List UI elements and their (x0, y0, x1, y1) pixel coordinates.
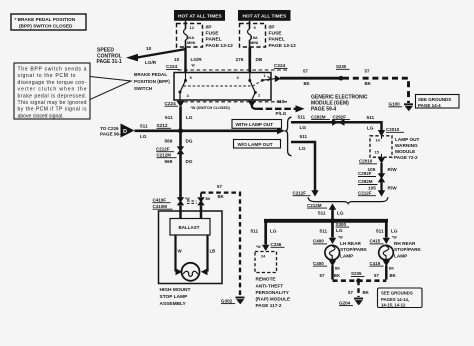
svg-text:S230: S230 (336, 64, 347, 69)
svg-text:C212M: C212M (307, 203, 322, 208)
svg-text:LG: LG (391, 228, 398, 233)
svg-text:LG: LG (300, 125, 307, 130)
switch blade left (pin 5 to pin 4) (179, 81, 190, 101)
svg-text:MODULE: MODULE (395, 149, 415, 154)
svg-text:C2010: C2010 (386, 127, 400, 132)
svg-text:PAGE 72-2: PAGE 72-2 (394, 155, 418, 160)
svg-text:BK: BK (390, 273, 397, 278)
hot at all times bar 2 (238, 10, 291, 21)
wire: 57 BK from RH lamp (374, 266, 397, 280)
svg-text:TO C226: TO C226 (100, 126, 119, 131)
connector C224 right arrow (274, 63, 288, 82)
ground G302 (221, 298, 245, 305)
wire LB from ballast to lamp (201, 235, 216, 275)
high mount stop lamp assembly box (159, 211, 223, 284)
svg-text:LG/R: LG/R (145, 60, 157, 65)
svg-text:ASSEMBLY: ASSEMBLY (160, 301, 187, 307)
svg-text:DG: DG (186, 159, 193, 164)
RH rear stop/park lamp (379, 241, 422, 260)
lamp out warning module label (394, 137, 420, 160)
pin 3 (237, 73, 252, 83)
connector C410F C410M (153, 197, 211, 209)
svg-text:W/O LAMP OUT: W/O LAMP OUT (238, 142, 273, 147)
wire: 57 BK dashed to ground G100 (343, 69, 409, 104)
see grounds box (bottom) (378, 288, 423, 308)
svg-text:POSITION (BPP): POSITION (BPP) (134, 79, 170, 84)
hot at all times bar 1 (174, 10, 225, 21)
svg-text:HOT AT ALL TIMES: HOT AT ALL TIMES (243, 14, 288, 20)
pin 5 (184, 73, 193, 83)
svg-text:57: 57 (365, 69, 370, 74)
wire: 569 DG down to C410 (165, 154, 193, 198)
connector C292M C292F (311, 114, 374, 130)
connector C2010 arrow into lamp out module (378, 127, 404, 137)
brace split (286, 117, 292, 156)
footnote box: brake pedal position switch closed (11, 14, 86, 30)
svg-text:511: 511 (318, 211, 326, 216)
svg-text:MINI: MINI (250, 40, 258, 45)
svg-text:57: 57 (217, 184, 222, 189)
svg-text:MINI: MINI (187, 40, 195, 45)
svg-text:C212F: C212F (358, 190, 372, 195)
wire: 511 LG horizontal run to brace (135, 124, 285, 139)
wire W from ballast to lamp (176, 235, 183, 275)
svg-text:LG: LG (299, 146, 306, 151)
svg-text:511: 511 (140, 124, 148, 129)
svg-text:*W: *W (338, 236, 343, 240)
svg-text:SWITCH: SWITCH (134, 86, 153, 91)
svg-text:STOP/PARK: STOP/PARK (394, 247, 422, 252)
speed control reference label (97, 48, 122, 66)
svg-text:PANEL: PANEL (269, 37, 285, 43)
svg-text:I/P: I/P (269, 25, 276, 31)
svg-text:FUSE: FUSE (269, 31, 283, 37)
svg-text:S235: S235 (351, 271, 362, 276)
svg-text:57: 57 (320, 273, 325, 278)
svg-text:P/LG: P/LG (276, 111, 287, 116)
svg-text:G204: G204 (339, 300, 351, 305)
svg-text:C410M: C410M (153, 204, 168, 209)
svg-text:LG: LG (186, 115, 193, 120)
D triangle connector (121, 124, 135, 138)
high mount lamp bulb (182, 263, 200, 281)
svg-text:C400: C400 (313, 239, 324, 244)
wire: 569 DG from splice S212 down to C212 connector (165, 131, 193, 147)
svg-text:C224: C224 (165, 101, 177, 106)
svg-text:BK: BK (335, 266, 340, 270)
see grounds box (top) (416, 95, 460, 109)
svg-text:LB: LB (210, 249, 216, 254)
ground G204 (339, 299, 363, 306)
svg-text:511: 511 (298, 114, 306, 119)
svg-text:BK: BK (206, 197, 211, 201)
connector arrow below pin 4 (177, 101, 231, 110)
pin 1 and wire out right side (261, 73, 276, 81)
svg-text:HIGH MOUNT: HIGH MOUNT (160, 287, 191, 293)
svg-text:511: 511 (165, 115, 173, 120)
BPP switch label (134, 72, 170, 91)
high mount stop lamp assembly label (160, 287, 191, 307)
svg-text:511: 511 (320, 228, 328, 233)
wire: 511 LG down to splice bus (318, 210, 344, 220)
svg-text:HOT AT ALL TIMES: HOT AT ALL TIMES (178, 14, 223, 20)
svg-text:57: 57 (374, 273, 379, 278)
svg-text:DG: DG (186, 139, 193, 144)
svg-text:PAGE 13-12: PAGE 13-12 (206, 43, 234, 49)
connector C212M (307, 203, 336, 210)
svg-text:15: 15 (375, 151, 379, 155)
wire: 105 R/W to C212F (358, 182, 397, 197)
connector C415 (bottom) (370, 260, 395, 270)
svg-text:LG: LG (336, 228, 343, 233)
svg-text:511: 511 (376, 228, 384, 233)
svg-text:R/W: R/W (388, 186, 398, 191)
svg-text:LH REAR: LH REAR (340, 241, 361, 246)
svg-text:brake pedal is depressed.: brake pedal is depressed. (18, 93, 87, 99)
wire: 57 BK from LH lamp (320, 266, 341, 280)
svg-text:The BPP switch sends a: The BPP switch sends a (18, 67, 87, 73)
connector C336 to RAP module (256, 242, 285, 251)
svg-text:BK: BK (304, 81, 311, 86)
svg-text:C212F: C212F (293, 190, 307, 195)
svg-text:LAMP: LAMP (340, 254, 353, 259)
svg-text:LG: LG (140, 134, 147, 139)
svg-text:C336: C336 (271, 242, 282, 247)
svg-text:10: 10 (174, 57, 180, 62)
svg-text:511: 511 (367, 115, 375, 120)
callout pointer lines to BPP switch label (90, 77, 131, 100)
connector C224 (top) dashed line (166, 64, 287, 70)
svg-text:above closed signal.: above closed signal. (18, 113, 64, 119)
connector C212F C212M pair (156, 146, 184, 157)
svg-text:D: D (123, 129, 127, 135)
svg-text:REMOTE: REMOTE (256, 277, 276, 282)
svg-text:PAGE 96-1: PAGE 96-1 (100, 132, 124, 137)
splice S230 (336, 64, 350, 80)
fuse box 2 (I/P fuse panel, fuse 9, 7.5A mini) (240, 21, 266, 48)
svg-text:* BRAKE PEDAL POSITION: * BRAKE PEDAL POSITION (15, 17, 76, 22)
connector arrow below pin 2 and wire 410 P/LG to GEM (248, 99, 305, 116)
wire: 511 LG from pin 4 down to junction (165, 107, 193, 132)
svg-text:G302: G302 (221, 298, 233, 303)
connector C224 (bottom) dashed line (165, 101, 288, 106)
svg-text:PAGE 59-4: PAGE 59-4 (311, 107, 336, 113)
splice S212 (157, 123, 184, 133)
LH rear stop/park lamp (325, 241, 368, 260)
svg-text:BK: BK (218, 194, 225, 199)
svg-text:PAGE 13-12: PAGE 13-12 (269, 43, 297, 49)
svg-text:410: 410 (277, 99, 285, 104)
svg-text:C400: C400 (313, 261, 324, 266)
mechanical link dashed (184, 80, 264, 86)
svg-text:LG/R: LG/R (191, 57, 203, 62)
svg-text:SEE GROUNDS: SEE GROUNDS (381, 291, 413, 296)
svg-text:WARNING: WARNING (395, 143, 418, 148)
svg-text:PAGE 14-4: PAGE 14-4 (418, 103, 441, 108)
svg-text:This signal may be ignored: This signal may be ignored (18, 100, 87, 106)
splice S300 (320, 218, 350, 237)
wire: 57 BK from C224 to splice S230 (280, 69, 341, 87)
svg-text:276: 276 (236, 57, 244, 62)
wires into ballast (181, 206, 202, 219)
connector C232F C292M pair (358, 171, 385, 184)
svg-text:*W: *W (256, 245, 261, 249)
w/o lamp out box (234, 140, 281, 149)
svg-text:LG: LG (270, 229, 277, 234)
svg-text:511: 511 (251, 229, 259, 234)
svg-text:BK: BK (389, 266, 394, 270)
svg-text:10: 10 (146, 46, 152, 51)
svg-text:ANTI-THEFT: ANTI-THEFT (256, 283, 284, 288)
svg-text:FUSE: FUSE (206, 31, 220, 37)
svg-text:G100: G100 (389, 102, 401, 107)
svg-text:*W: *W (392, 236, 397, 240)
svg-text:WITH LAMP OUT: WITH LAMP OUT (236, 122, 274, 127)
wire: 511 LG bottom branch (w/o lamp out) (291, 134, 319, 197)
svg-text:verter clutch when the: verter clutch when the (18, 87, 87, 93)
svg-text:C292M: C292M (311, 114, 326, 119)
ballast (170, 219, 210, 236)
remote anti-theft personality (RAP) module box (255, 252, 277, 273)
svg-text:12: 12 (190, 25, 195, 30)
svg-text:569: 569 (165, 139, 173, 144)
svg-text:*W (SWITCH CLOSED): *W (SWITCH CLOSED) (191, 106, 231, 110)
brace merge to C212M (308, 197, 388, 203)
svg-text:I/P: I/P (206, 25, 213, 31)
fuse panel label 1 (206, 25, 234, 50)
connector C2010 below module (359, 157, 385, 164)
svg-text:PAGE 117-2: PAGE 117-2 (256, 303, 282, 308)
to C226 reference (100, 126, 124, 137)
svg-text:BK: BK (334, 273, 341, 278)
connector C400 (top) (313, 236, 343, 244)
svg-text:DB: DB (256, 57, 263, 62)
generic electronic module (GEM) label (311, 95, 368, 113)
wire: 57 BK dashed from C410 to ground G302 (201, 184, 240, 295)
lamp out warning module box (370, 136, 392, 157)
svg-text:S300: S300 (336, 222, 347, 227)
switch blade right (pin 3 to pin 2) (250, 81, 261, 101)
svg-text:C212F: C212F (156, 146, 170, 151)
fuse box 1 (I/P fuse panel, fuse 12, 20A mini) (177, 21, 203, 48)
wire: 511 LG bus bar (264, 221, 388, 245)
svg-text:C292M: C292M (358, 179, 373, 184)
svg-text:C2010: C2010 (359, 159, 373, 164)
svg-text:LG: LG (337, 211, 344, 216)
wire: 105 R/W from module (368, 163, 398, 175)
fuse panel label 2 (269, 25, 297, 50)
wire: 10 LG/R from fuse 12 to BPP switch pin 5 (174, 48, 202, 73)
svg-text:PANEL: PANEL (206, 37, 222, 43)
svg-text:LG: LG (367, 126, 374, 131)
svg-text:disengage the torque con-: disengage the torque con- (18, 80, 87, 86)
svg-text:BRAKE PEDAL: BRAKE PEDAL (134, 72, 167, 77)
wire: 511 LG top branch (with lamp out) (291, 114, 382, 130)
wire: 276 DB from fuse 9 to BPP switch pin 3 (236, 48, 263, 73)
svg-text:569: 569 (165, 159, 173, 164)
svg-text:C224: C224 (274, 63, 286, 68)
svg-text:57: 57 (348, 290, 353, 295)
brake pedal position switch box (174, 73, 271, 101)
svg-text:R/W: R/W (388, 167, 398, 172)
svg-text:(RAP) MODULE: (RAP) MODULE (256, 297, 291, 302)
ground G100 (389, 102, 414, 112)
svg-text:(BPP) SWITCH CLOSED: (BPP) SWITCH CLOSED (19, 24, 73, 29)
svg-text:C410F: C410F (153, 197, 167, 202)
svg-text:PERSONALITY: PERSONALITY (256, 290, 290, 295)
svg-text:LAMP OUT: LAMP OUT (395, 137, 420, 142)
svg-text:SEE GROUNDS: SEE GROUNDS (418, 97, 451, 102)
svg-text:C415: C415 (370, 239, 381, 244)
svg-text:C292F: C292F (358, 171, 372, 176)
svg-text:BK: BK (365, 81, 372, 86)
svg-text:14-15, 14-12: 14-15, 14-12 (381, 303, 406, 308)
svg-text:C415: C415 (370, 261, 381, 266)
svg-text:BK: BK (363, 290, 370, 295)
note box: BPP switch explanation (14, 63, 90, 119)
svg-text:BALLAST: BALLAST (179, 225, 200, 230)
svg-text:C212M: C212M (157, 152, 172, 157)
svg-text:LAMP: LAMP (394, 254, 407, 259)
svg-text:C292F: C292F (333, 114, 347, 119)
bus branch labels (251, 228, 398, 233)
svg-text:S212: S212 (157, 123, 168, 128)
svg-text:by the PCM if TP signal is: by the PCM if TP signal is (18, 107, 87, 113)
svg-text:C224: C224 (166, 64, 178, 69)
wire: 57 BK dashed ground run with splice S235 (333, 271, 387, 297)
svg-text:511: 511 (300, 134, 308, 139)
wire: 10 LG/R branch to speed control with left arrow (126, 46, 186, 65)
connector C415 (top) (370, 236, 398, 244)
svg-text:57: 57 (303, 69, 308, 74)
svg-text:STOP LAMP: STOP LAMP (160, 294, 189, 300)
svg-text:PAGES 14-14,: PAGES 14-14, (381, 297, 409, 302)
svg-text:signal to the PCM to: signal to the PCM to (18, 73, 76, 79)
RAP module label (256, 277, 291, 308)
connector C400 (bottom) (313, 260, 340, 270)
with lamp out box (232, 120, 282, 129)
svg-text:PAGE 31-1: PAGE 31-1 (97, 59, 122, 65)
svg-text:STOP/PARK: STOP/PARK (340, 247, 368, 252)
svg-text:RH REAR: RH REAR (394, 241, 416, 246)
